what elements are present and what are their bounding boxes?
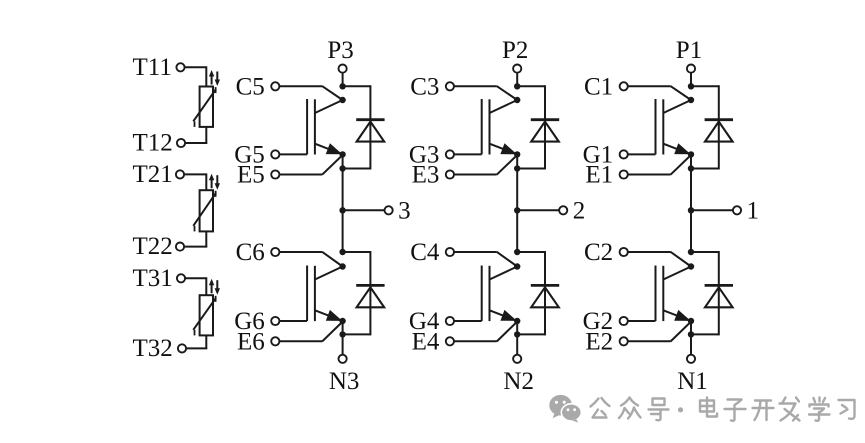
node P2 tap [514, 83, 520, 89]
transistor Q2 gate bar [655, 266, 657, 322]
transistor Q6 emitter stroke [315, 310, 343, 321]
node Q2 collector [688, 263, 694, 269]
svg-text:E3: E3 [412, 162, 440, 189]
wire diode D1 bottom [691, 168, 719, 170]
terminal E2 [620, 337, 628, 345]
transistor Q2 emitter stroke [663, 310, 691, 321]
terminal C2 [620, 248, 628, 256]
wire diode D2 bottom [691, 333, 719, 335]
label N2 [503, 368, 534, 395]
wire G1 [628, 153, 656, 155]
wire P3 feed [342, 73, 344, 88]
wire C4 [454, 252, 517, 267]
svg-text:C3: C3 [410, 74, 439, 101]
label T31 [133, 265, 173, 292]
terminal output 1 [733, 206, 741, 214]
wire lower emitter to N2 [516, 321, 518, 355]
diode D3 cathode bar [531, 118, 559, 121]
node Q3 emitter [514, 151, 520, 157]
svg-text:N3: N3 [329, 368, 360, 395]
label C3 [410, 74, 439, 101]
thermistor R1 t-arrows [209, 70, 220, 86]
node diode D1 return [688, 165, 694, 171]
transistor Q5 gate bar [306, 99, 308, 154]
wire output 2 [517, 209, 559, 211]
wire output 1 [691, 209, 733, 211]
node output 3 [339, 207, 345, 213]
terminal G5 [271, 150, 279, 158]
thermistor R2 body [200, 190, 213, 231]
svg-text:T12: T12 [133, 130, 173, 157]
watermark glyph xue [809, 398, 830, 421]
terminal output 3 [385, 206, 393, 214]
svg-text:1: 1 [747, 198, 760, 225]
wire C3 [454, 86, 517, 100]
diode D2 cathode bar [705, 284, 733, 287]
svg-text:T11: T11 [133, 54, 172, 81]
terminal E1 [620, 170, 628, 178]
node diode D3 return [514, 165, 520, 171]
terminal P2 [513, 65, 521, 73]
svg-text:C6: C6 [236, 239, 265, 266]
transistor Q4 channel bar [489, 266, 491, 321]
wire output to lower tap [516, 210, 518, 253]
transistor Q1 gate bar [655, 99, 657, 154]
node P3 tap [339, 83, 345, 89]
transistor Q6 channel bar [314, 266, 316, 321]
watermark wechat icon eyes [555, 401, 576, 412]
watermark wechat icon small bubble [561, 404, 581, 423]
thermistor R1 body [200, 87, 213, 127]
node Q5 emitter [339, 151, 345, 157]
wire C2 [628, 252, 691, 267]
node Q5 collector [339, 97, 345, 103]
wire [185, 277, 206, 295]
wire diode D3 branch [544, 85, 546, 169]
wire E4 [454, 322, 517, 342]
transistor Q4 emitter stroke [490, 310, 518, 321]
svg-text:E4: E4 [412, 329, 440, 356]
diode D5 cathode bar [356, 118, 384, 121]
wire [185, 66, 207, 86]
watermark glyph xi [839, 400, 855, 419]
transistor Q5 collector stroke [315, 100, 343, 113]
wire P2 feed [516, 73, 518, 88]
wire lower emitter to N3 [342, 321, 344, 355]
svg-text:C4: C4 [410, 239, 440, 266]
svg-text:P2: P2 [502, 37, 528, 64]
wire diode D1 top [691, 85, 719, 87]
wire C1 [628, 86, 691, 100]
watermark wechat icon big bubble [549, 395, 572, 418]
terminal T32 [178, 344, 186, 352]
label T22 [133, 233, 173, 260]
transistor Q2 channel bar [662, 266, 664, 321]
watermark glyph hao [649, 399, 669, 421]
wire diode D3 top [517, 85, 545, 87]
wire diode D5 top [343, 85, 371, 87]
node Q6 collector [339, 263, 345, 269]
transistor Q5 emitter stroke [315, 143, 343, 154]
terminal G6 [271, 317, 279, 325]
terminal T31 [177, 274, 185, 282]
wire upper emitter to output [516, 154, 518, 210]
terminal P1 [687, 65, 695, 73]
node output 1 [688, 207, 694, 213]
wire diode D5 branch [369, 85, 371, 169]
label T32 [133, 335, 173, 362]
thermistor R2 diagonal [193, 191, 216, 232]
wire E2 [628, 322, 691, 342]
wire output to lower tap [342, 210, 344, 253]
node output 2 [514, 207, 520, 213]
terminal G1 [620, 150, 628, 158]
wire E6 [279, 322, 342, 342]
terminal E4 [446, 337, 454, 345]
node diode D6 return [339, 331, 345, 337]
svg-text:P1: P1 [676, 37, 702, 64]
label E3 [412, 162, 440, 189]
label T21 [133, 161, 173, 188]
label T11 [133, 54, 172, 81]
label C4 [410, 239, 440, 266]
transistor Q5 channel bar [314, 99, 316, 154]
transistor Q6 gate bar [306, 266, 308, 322]
wire G4 [454, 320, 482, 322]
transistor Q1 emitter stroke [663, 143, 691, 154]
wire [186, 335, 207, 348]
diode D1 triangle [705, 122, 733, 142]
wire C6 [279, 252, 342, 267]
wire G3 [454, 153, 482, 155]
label G5 [234, 142, 265, 169]
label E6 [237, 329, 265, 356]
watermark separator dot [678, 407, 683, 412]
watermark glyph fa [780, 398, 800, 421]
terminal C5 [271, 82, 279, 90]
wire [184, 173, 206, 190]
terminal E5 [271, 170, 279, 178]
terminal C1 [620, 82, 628, 90]
terminal G2 [620, 317, 628, 325]
transistor Q3 gate bar [481, 99, 483, 154]
wire lower emitter to N1 [690, 321, 692, 355]
label N1 [677, 368, 708, 395]
wire E5 [279, 155, 342, 175]
label P3 [327, 37, 353, 64]
wire C5 [279, 86, 342, 100]
label G2 [583, 308, 614, 335]
label C6 [236, 239, 265, 266]
node lower tap [339, 249, 345, 255]
label output 1 [747, 198, 760, 225]
svg-text:T32: T32 [133, 335, 173, 362]
transistor Q3 collector stroke [490, 100, 518, 113]
svg-text:C2: C2 [584, 239, 613, 266]
wire diode D4 bottom [517, 333, 545, 335]
terminal G3 [446, 150, 454, 158]
svg-text:3: 3 [398, 198, 411, 225]
diode D1 cathode bar [705, 118, 733, 121]
label C2 [584, 239, 613, 266]
svg-text:P3: P3 [327, 37, 353, 64]
label G6 [234, 308, 265, 335]
transistor Q4 gate bar [481, 266, 483, 322]
watermark glyph zhong [619, 398, 641, 419]
wire G5 [279, 153, 307, 155]
transistor Q4 collector stroke [490, 267, 518, 280]
wire diode D4 branch [544, 251, 546, 335]
wire diode D6 branch [369, 251, 371, 335]
terminal P3 [339, 65, 347, 73]
diode D2 triangle [705, 287, 733, 307]
wire [185, 127, 207, 143]
wire G6 [279, 320, 307, 322]
wire E3 [454, 155, 517, 175]
svg-text:T22: T22 [133, 233, 173, 260]
thermistor R2 t-arrows [209, 174, 220, 190]
label G4 [409, 308, 440, 335]
label E2 [585, 329, 613, 356]
svg-text:E1: E1 [585, 162, 613, 189]
thermistor R1 diagonal [193, 87, 216, 127]
node Q1 collector [688, 97, 694, 103]
wire output 3 [343, 209, 385, 211]
transistor Q1 channel bar [662, 99, 664, 154]
node diode D2 return [688, 331, 694, 337]
node P1 tap [688, 83, 694, 89]
node lower tap [688, 249, 694, 255]
wire upper emitter to output [690, 154, 692, 210]
diode D6 cathode bar [356, 284, 384, 287]
svg-text:T21: T21 [133, 161, 173, 188]
terminal G4 [446, 317, 454, 325]
watermark glyph zi [725, 400, 746, 421]
terminal T22 [176, 243, 184, 251]
transistor Q3 emitter stroke [490, 143, 518, 154]
svg-text:E6: E6 [237, 329, 265, 356]
svg-text:N2: N2 [503, 368, 534, 395]
label N3 [329, 368, 360, 395]
terminal T21 [176, 170, 184, 178]
node Q2 emitter [688, 318, 694, 324]
terminal output 2 [559, 206, 567, 214]
label G1 [583, 142, 614, 169]
svg-text:C5: C5 [236, 74, 265, 101]
terminal T11 [176, 63, 184, 71]
wire diode D6 bottom [343, 333, 371, 335]
diode D4 cathode bar [531, 284, 559, 287]
label T12 [133, 130, 173, 157]
label E1 [585, 162, 613, 189]
transistor Q3 channel bar [489, 99, 491, 154]
svg-text:N1: N1 [677, 368, 708, 395]
terminal C3 [446, 82, 454, 90]
wire E1 [628, 155, 691, 175]
node Q3 collector [514, 97, 520, 103]
thermistor R3 body [200, 295, 213, 335]
node Q1 emitter [688, 151, 694, 157]
terminal C4 [446, 248, 454, 256]
diode D3 triangle [531, 122, 559, 142]
transistor Q1 collector stroke [663, 100, 691, 113]
label C5 [236, 74, 265, 101]
svg-text:E2: E2 [585, 329, 613, 356]
svg-text:E5: E5 [237, 162, 265, 189]
node lower tap [514, 249, 520, 255]
wire diode D4 top [517, 251, 545, 253]
svg-text:T31: T31 [133, 265, 173, 292]
thermistor R3 t-arrows [209, 279, 220, 295]
terminal N2 [513, 355, 521, 363]
wire G2 [628, 320, 656, 322]
wire diode D6 top [343, 251, 371, 253]
watermark glyph gong [591, 398, 610, 418]
label P1 [676, 37, 702, 64]
node diode D5 return [339, 165, 345, 171]
diode D5 triangle [357, 122, 385, 142]
diode D4 triangle [531, 287, 559, 307]
svg-text:2: 2 [573, 198, 586, 225]
terminal N1 [687, 355, 695, 363]
node diode D4 return [514, 331, 520, 337]
terminal C6 [271, 248, 279, 256]
label E5 [237, 162, 265, 189]
wire diode D1 branch [718, 85, 720, 169]
watermark glyph kai [753, 401, 774, 421]
diode D6 triangle [357, 287, 385, 307]
wire output to lower tap [690, 210, 692, 253]
wire diode D5 bottom [343, 168, 371, 170]
terminal E6 [271, 337, 279, 345]
wire P1 feed [690, 73, 692, 88]
label output 2 [573, 198, 586, 225]
label output 3 [398, 198, 411, 225]
terminal E3 [446, 170, 454, 178]
wire diode D2 top [691, 251, 719, 253]
transistor Q2 collector stroke [663, 267, 691, 280]
label C1 [584, 74, 613, 101]
thermistor R3 diagonal [193, 296, 216, 336]
transistor Q6 collector stroke [315, 267, 343, 280]
wire diode D3 bottom [517, 168, 545, 170]
node Q4 emitter [514, 318, 520, 324]
node Q6 emitter [339, 318, 345, 324]
wire [184, 231, 207, 246]
watermark glyph dian [700, 398, 717, 417]
terminal T12 [177, 139, 185, 147]
label G3 [409, 142, 440, 169]
wire upper emitter to output [342, 154, 344, 210]
node Q4 collector [514, 263, 520, 269]
terminal N3 [339, 355, 347, 363]
label E4 [412, 329, 440, 356]
label P2 [502, 37, 528, 64]
wire diode D2 branch [718, 251, 720, 335]
svg-text:C1: C1 [584, 74, 613, 101]
